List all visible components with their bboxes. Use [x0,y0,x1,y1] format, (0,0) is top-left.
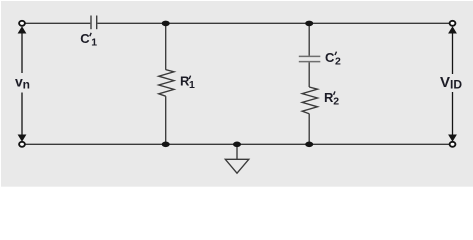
svg-text:ID: ID [450,78,462,92]
svg-text:V: V [440,74,450,91]
svg-text:C: C [80,31,90,46]
svg-text:2: 2 [333,95,339,107]
svg-text:2: 2 [335,55,341,67]
svg-text:C: C [325,50,335,65]
svg-text:1: 1 [189,79,195,91]
svg-text:n: n [23,77,30,91]
svg-text:1: 1 [91,36,97,48]
